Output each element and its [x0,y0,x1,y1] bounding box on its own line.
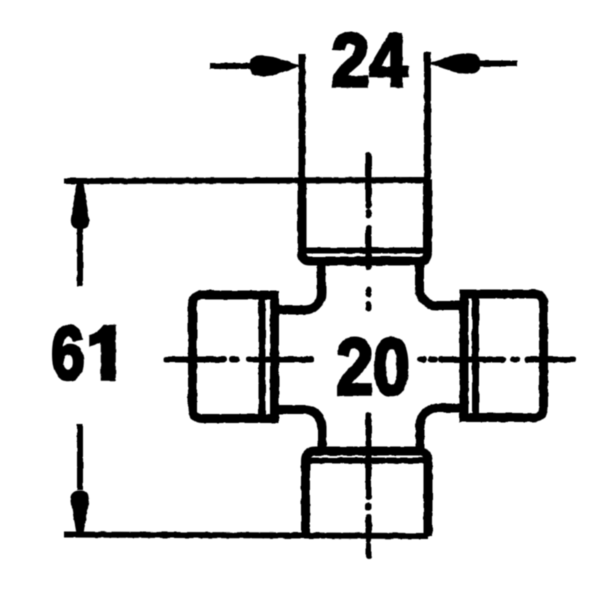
svg-text:20: 20 [336,322,409,411]
svg-text:6: 6 [51,313,84,396]
dim 61 top extension line (merges with top cap top edge) [64,180,428,181]
dim 24 left extension line [299,54,306,182]
top bearing cap outline [302,179,428,261]
top cap seam line [306,248,424,254]
left bearing cap outline [193,295,275,419]
dim 24 dimension line left arrow [210,56,301,77]
bottom bearing cap outline [306,451,429,536]
horizontal centerline [166,357,573,363]
dim 24 right extension line [424,52,431,182]
dim 24 dimension line right arrow [429,53,517,74]
left cap seam line [259,298,266,416]
dim 61 upper arrow (points up) [71,183,89,286]
cross body upper-right fillet outline [420,260,466,306]
cross body upper-left fillet outline [274,260,322,310]
right cap seam line [472,297,479,415]
cross body lower-left fillet outline [274,410,322,453]
vertical centerline [366,155,372,556]
svg-text:24: 24 [332,19,408,103]
bottom cap seam line [310,458,424,464]
right bearing cap outline [464,294,544,418]
dim 61 lower arrow (points down) [71,424,89,534]
cross body lower-right fillet outline [420,408,465,452]
dim 61 bottom extension line (merges with bottom cap bottom edge) [64,535,428,537]
